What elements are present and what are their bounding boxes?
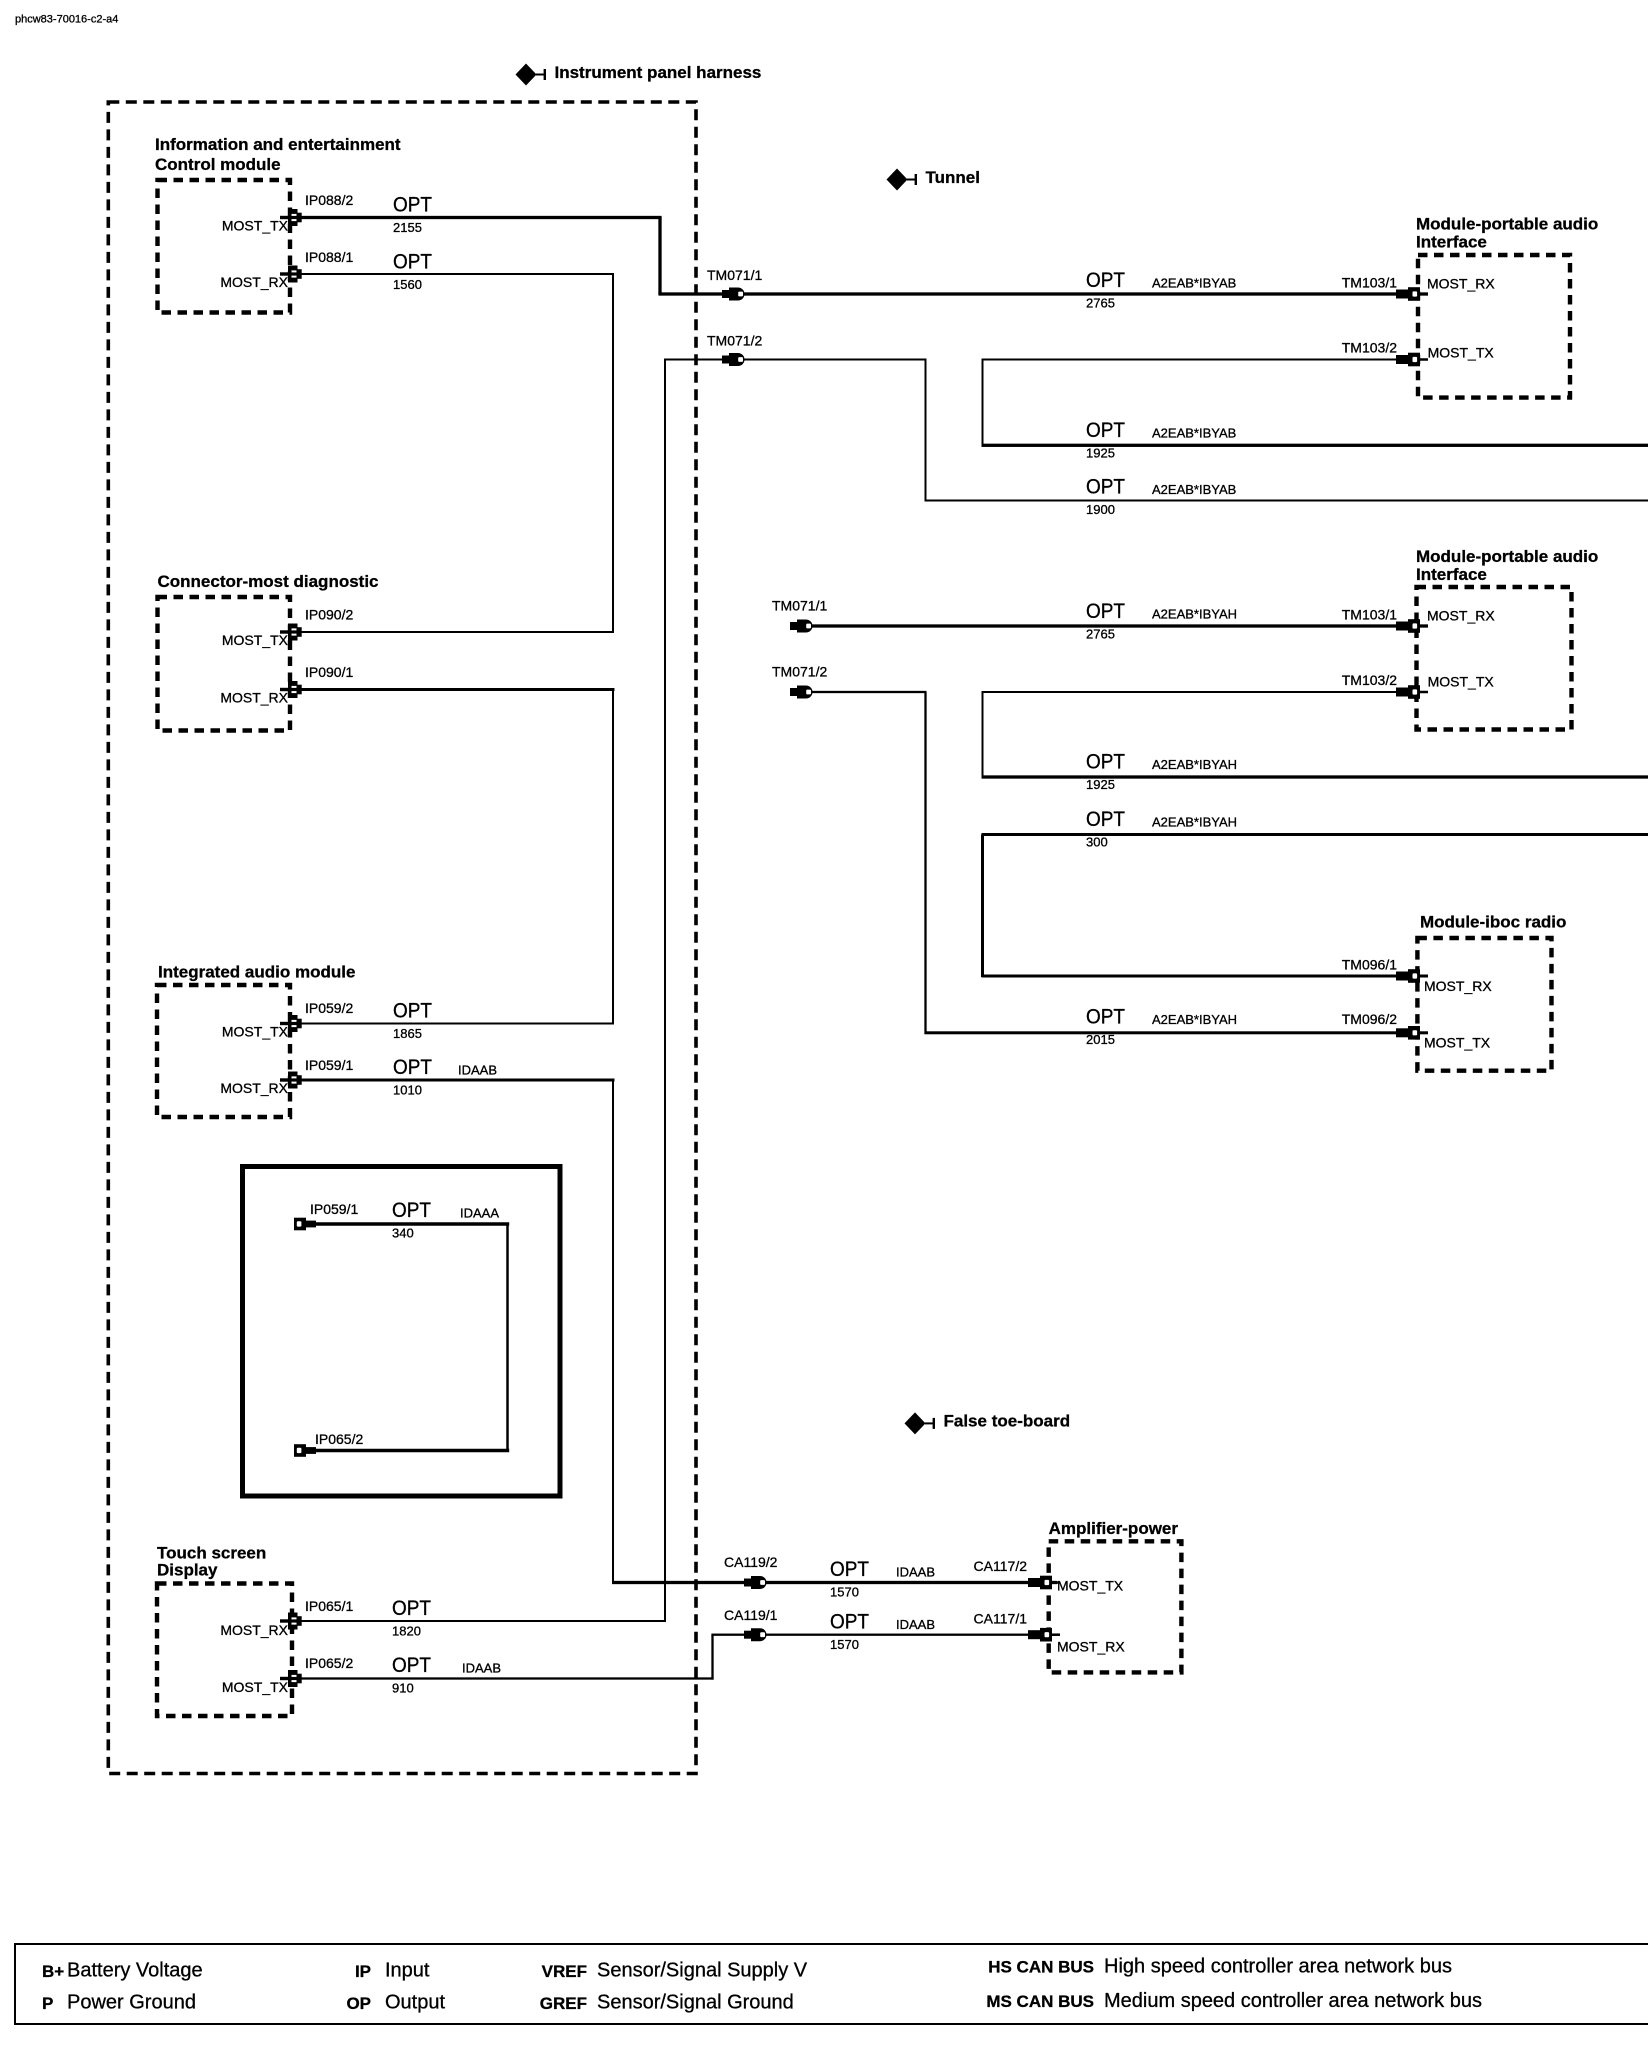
svg-text:MOST_TX: MOST_TX bbox=[1428, 344, 1495, 360]
svg-text:IP088/2: IP088/2 bbox=[305, 192, 353, 208]
wire through TM071/2 bbox=[664, 359, 927, 361]
wire OPT 910 from IP065/2 bbox=[302, 1677, 714, 1679]
svg-text:IP090/2: IP090/2 bbox=[305, 606, 353, 622]
wire vertical IP065/2 to CA119/1 bbox=[711, 1635, 713, 1680]
svg-text:Input: Input bbox=[385, 1960, 430, 1982]
wire OPT 300 off-page bbox=[982, 833, 1648, 836]
svg-text:OPT: OPT bbox=[392, 1654, 431, 1677]
svg-text:CA117/2: CA117/2 bbox=[974, 1558, 1028, 1574]
pin IP059/1 loop stub bbox=[294, 1218, 316, 1231]
svg-text:OPT: OPT bbox=[1086, 475, 1125, 498]
module Module-portable audio Interface (lower) bbox=[1417, 587, 1572, 730]
connector TM071/2 (upper) bbox=[722, 353, 745, 366]
svg-text:Power Ground: Power Ground bbox=[67, 1992, 196, 2014]
Instrument panel harness boundary box bbox=[108, 102, 696, 1774]
wire vertical to OPT 1925 bbox=[982, 360, 984, 447]
svg-text:2155: 2155 bbox=[393, 220, 422, 235]
svg-text:MOST_TX: MOST_TX bbox=[1428, 673, 1495, 689]
svg-text:Module-portable audio: Module-portable audio bbox=[1416, 547, 1598, 566]
svg-text:CA117/1: CA117/1 bbox=[974, 1610, 1028, 1626]
wire OPT 1925 lower off-page bbox=[982, 775, 1648, 778]
wire vertical to OPT 1925 lower bbox=[982, 692, 984, 778]
svg-text:P: P bbox=[42, 1994, 53, 2013]
wire to TM103/2 bbox=[982, 359, 1429, 361]
wire to TM103/2 lower bbox=[982, 691, 1429, 693]
svg-text:OP: OP bbox=[346, 1994, 371, 2013]
wire OPT 1570 through CA119/2 to CA117/2 bbox=[612, 1581, 1057, 1584]
svg-text:OPT: OPT bbox=[393, 193, 432, 216]
svg-text:Interface: Interface bbox=[1416, 232, 1487, 251]
svg-text:OPT: OPT bbox=[830, 1610, 869, 1633]
svg-text:Interface: Interface bbox=[1416, 565, 1487, 584]
svg-text:IDAAB: IDAAB bbox=[458, 1063, 497, 1078]
svg-text:TM071/1: TM071/1 bbox=[772, 597, 827, 613]
svg-text:A2EAB*IBYAH: A2EAB*IBYAH bbox=[1152, 757, 1237, 772]
svg-text:MOST_TX: MOST_TX bbox=[222, 1679, 289, 1695]
pin TM096/2 MOST_TX bbox=[1396, 1026, 1428, 1040]
svg-text:TM071/2: TM071/2 bbox=[707, 332, 762, 348]
svg-text:High speed controller area net: High speed controller area network bus bbox=[1104, 1956, 1452, 1978]
svg-text:MOST_TX: MOST_TX bbox=[1424, 1034, 1491, 1050]
wire OPT 340 loop from IP059/1 bbox=[314, 1222, 509, 1226]
wire from IP090/1 bbox=[302, 688, 615, 691]
svg-text:A2EAB*IBYAH: A2EAB*IBYAH bbox=[1152, 607, 1237, 622]
wire vertical TM071/2 to TM096/2 bbox=[924, 692, 926, 1034]
svg-text:Tunnel: Tunnel bbox=[926, 168, 980, 187]
harness marker Instrument panel harness bbox=[516, 64, 547, 86]
connector TM071/2 (lower) bbox=[790, 686, 813, 699]
wire OPT 1010 from IP059/1 bbox=[302, 1079, 615, 1082]
module Module-portable audio Interface (upper) bbox=[1418, 255, 1570, 398]
wire OPT 2155 from IP088/2 bbox=[302, 216, 662, 219]
wire OPT 2765 through TM071/1 to TM103/1 bbox=[658, 292, 1428, 295]
svg-text:IP090/1: IP090/1 bbox=[305, 664, 353, 680]
svg-text:CA119/2: CA119/2 bbox=[724, 1554, 778, 1570]
svg-text:IP059/2: IP059/2 bbox=[305, 1000, 353, 1016]
pin IP090/2 MOST_TX bbox=[280, 624, 302, 641]
svg-text:Output: Output bbox=[385, 1992, 445, 2014]
module Amplifier-power bbox=[1049, 1541, 1182, 1672]
svg-text:CA119/1: CA119/1 bbox=[724, 1607, 778, 1623]
svg-text:MOST_TX: MOST_TX bbox=[222, 632, 289, 648]
pin TM103/2 MOST_TX (upper) bbox=[1396, 353, 1428, 367]
pin IP090/1 MOST_RX bbox=[280, 681, 302, 698]
svg-text:1010: 1010 bbox=[393, 1083, 422, 1098]
wire OPT 2015 to TM096/2 bbox=[925, 1031, 1429, 1034]
svg-text:2765: 2765 bbox=[1086, 627, 1115, 642]
svg-text:Integrated audio module: Integrated audio module bbox=[158, 962, 355, 981]
wire OPT 1900 off-page bbox=[925, 500, 1648, 502]
svg-text:1865: 1865 bbox=[393, 1026, 422, 1041]
svg-text:MOST_TX: MOST_TX bbox=[222, 1023, 289, 1039]
svg-text:OPT: OPT bbox=[1086, 419, 1125, 442]
svg-text:IP: IP bbox=[355, 1962, 371, 1981]
wire OPT 1925 off-page bbox=[982, 444, 1648, 447]
connector TM071/1 (lower) bbox=[790, 620, 813, 633]
module Module-iboc radio bbox=[1417, 938, 1551, 1071]
wire OPT 1570 through CA119/1 to CA117/1 bbox=[711, 1634, 1057, 1636]
svg-text:IP065/1: IP065/1 bbox=[305, 1598, 353, 1614]
svg-text:phcw83-70016-c2-a4: phcw83-70016-c2-a4 bbox=[15, 14, 118, 26]
svg-text:IP065/2: IP065/2 bbox=[305, 1655, 353, 1671]
wire vertical IP059/1 to CA119/2 bbox=[612, 1080, 614, 1584]
svg-text:OPT: OPT bbox=[1086, 1005, 1125, 1028]
svg-text:False toe-board: False toe-board bbox=[944, 1412, 1071, 1431]
svg-text:Sensor/Signal Supply V: Sensor/Signal Supply V bbox=[597, 1960, 808, 1982]
module Touch screen Display bbox=[157, 1584, 292, 1717]
pin TM096/1 MOST_RX bbox=[1396, 969, 1428, 983]
svg-text:Amplifier-power: Amplifier-power bbox=[1049, 1519, 1179, 1538]
svg-text:MS CAN BUS: MS CAN BUS bbox=[986, 1992, 1094, 2011]
svg-text:OPT: OPT bbox=[1086, 808, 1125, 831]
svg-text:VREF: VREF bbox=[542, 1962, 587, 1981]
wire to TM096/1 bbox=[982, 975, 1429, 978]
svg-text:1560: 1560 bbox=[393, 277, 422, 292]
svg-text:Module-iboc radio: Module-iboc radio bbox=[1420, 912, 1566, 931]
wire OPT 1865 from IP059/2 bbox=[302, 1023, 615, 1025]
svg-text:OPT: OPT bbox=[393, 1056, 432, 1079]
svg-text:910: 910 bbox=[392, 1681, 414, 1696]
pin IP059/1 MOST_RX bbox=[280, 1072, 302, 1089]
svg-text:MOST_TX: MOST_TX bbox=[1057, 1577, 1124, 1593]
svg-text:340: 340 bbox=[392, 1226, 414, 1241]
pin TM103/1 MOST_RX (lower) bbox=[1396, 619, 1428, 633]
svg-text:MOST_RX: MOST_RX bbox=[220, 1622, 288, 1638]
svg-text:A2EAB*IBYAH: A2EAB*IBYAH bbox=[1152, 815, 1237, 830]
svg-text:OPT: OPT bbox=[830, 1558, 869, 1581]
svg-text:OPT: OPT bbox=[393, 999, 432, 1022]
wire vertical IP088/1 to IP090/2 bbox=[612, 274, 614, 632]
svg-text:Information and entertainment: Information and entertainment bbox=[155, 135, 401, 154]
wire loop vertical bbox=[506, 1223, 509, 1452]
svg-text:TM103/1: TM103/1 bbox=[1342, 274, 1397, 290]
svg-text:IDAAA: IDAAA bbox=[460, 1206, 499, 1221]
svg-text:Instrument panel harness: Instrument panel harness bbox=[555, 63, 762, 82]
module Connector-most diagnostic bbox=[158, 597, 291, 731]
svg-text:HS CAN BUS: HS CAN BUS bbox=[988, 1957, 1094, 1976]
svg-text:TM071/2: TM071/2 bbox=[772, 663, 827, 679]
svg-text:300: 300 bbox=[1086, 835, 1108, 850]
svg-text:Module-portable audio: Module-portable audio bbox=[1416, 214, 1598, 233]
connector CA119/2 bbox=[744, 1576, 767, 1589]
pin IP059/2 MOST_TX bbox=[280, 1015, 302, 1032]
connector TM071/1 (upper) bbox=[722, 288, 745, 301]
svg-text:MOST_RX: MOST_RX bbox=[220, 1080, 288, 1096]
module Information and entertainment Control module bbox=[158, 180, 291, 313]
svg-text:OPT: OPT bbox=[392, 1199, 431, 1222]
wire corner down to TM071/1 level bbox=[658, 218, 661, 295]
optical loop junction box bbox=[243, 1167, 561, 1497]
svg-text:A2EAB*IBYAB: A2EAB*IBYAB bbox=[1152, 276, 1236, 291]
wire from IP090/2 bbox=[302, 631, 615, 633]
wire vertical IP090/1 to IP059/2 bbox=[612, 690, 614, 1024]
svg-text:OPT: OPT bbox=[1086, 750, 1125, 773]
svg-text:Connector-most diagnostic: Connector-most diagnostic bbox=[158, 572, 379, 591]
svg-text:OPT: OPT bbox=[393, 250, 432, 273]
svg-text:IP059/1: IP059/1 bbox=[310, 1201, 358, 1217]
svg-text:1900: 1900 bbox=[1086, 502, 1115, 517]
svg-text:Medium speed controller area n: Medium speed controller area network bus bbox=[1104, 1990, 1482, 2012]
svg-text:1570: 1570 bbox=[830, 1637, 859, 1652]
pin CA117/1 MOST_RX bbox=[1028, 1628, 1060, 1642]
svg-text:2765: 2765 bbox=[1086, 296, 1115, 311]
svg-text:MOST_RX: MOST_RX bbox=[1424, 978, 1492, 994]
wire OPT 2765 lower from TM071/1 to TM103/1 bbox=[790, 624, 1428, 627]
svg-text:Battery Voltage: Battery Voltage bbox=[67, 1960, 203, 1982]
svg-text:MOST_RX: MOST_RX bbox=[1057, 1638, 1125, 1654]
wire through TM071/2 lower bbox=[790, 691, 927, 693]
wire loop to IP065/2 bbox=[314, 1449, 509, 1453]
svg-text:1925: 1925 bbox=[1086, 777, 1115, 792]
svg-text:IDAAB: IDAAB bbox=[462, 1661, 501, 1676]
svg-text:Display: Display bbox=[157, 1560, 218, 1579]
svg-text:MOST_RX: MOST_RX bbox=[220, 274, 288, 290]
svg-text:OPT: OPT bbox=[1086, 600, 1125, 623]
harness marker False toe-board bbox=[905, 1412, 936, 1434]
pin IP065/1 MOST_RX bbox=[280, 1613, 302, 1630]
svg-text:Control module: Control module bbox=[155, 155, 281, 174]
svg-text:TM096/1: TM096/1 bbox=[1342, 956, 1397, 972]
svg-text:IP065/2: IP065/2 bbox=[315, 1431, 363, 1447]
svg-text:MOST_RX: MOST_RX bbox=[1427, 276, 1495, 292]
svg-text:A2EAB*IBYAB: A2EAB*IBYAB bbox=[1152, 482, 1236, 497]
pin IP088/2 MOST_TX bbox=[280, 209, 302, 226]
svg-text:2015: 2015 bbox=[1086, 1032, 1115, 1047]
legend box bbox=[15, 1944, 1648, 2024]
svg-text:A2EAB*IBYAB: A2EAB*IBYAB bbox=[1152, 426, 1236, 441]
wire OPT 1820 from IP065/1 bbox=[302, 1620, 667, 1622]
svg-text:TM096/2: TM096/2 bbox=[1342, 1011, 1397, 1027]
svg-text:1820: 1820 bbox=[392, 1624, 421, 1639]
pin TM103/2 MOST_TX (lower) bbox=[1396, 685, 1428, 699]
svg-text:TM103/2: TM103/2 bbox=[1342, 672, 1397, 688]
wire vertical to OPT 1900 bbox=[925, 360, 927, 501]
svg-text:OPT: OPT bbox=[1086, 269, 1125, 292]
pin TM103/1 MOST_RX (upper) bbox=[1396, 287, 1428, 301]
svg-text:IP059/1: IP059/1 bbox=[305, 1057, 353, 1073]
wire vertical OPT 300 to TM096/1 bbox=[981, 835, 984, 978]
svg-text:MOST_RX: MOST_RX bbox=[1427, 607, 1495, 623]
connector CA119/1 bbox=[744, 1628, 767, 1641]
svg-text:1570: 1570 bbox=[830, 1585, 859, 1600]
svg-text:1925: 1925 bbox=[1086, 446, 1115, 461]
svg-text:MOST_TX: MOST_TX bbox=[222, 217, 289, 233]
pin IP065/2 MOST_TX bbox=[280, 1670, 302, 1687]
pin IP065/2 loop stub bbox=[294, 1444, 316, 1457]
svg-text:IDAAB: IDAAB bbox=[896, 1565, 935, 1580]
svg-text:Sensor/Signal Ground: Sensor/Signal Ground bbox=[597, 1992, 794, 2014]
svg-text:GREF: GREF bbox=[540, 1994, 587, 2013]
svg-text:MOST_RX: MOST_RX bbox=[220, 689, 288, 705]
wire OPT 1560 from IP088/1 bbox=[302, 273, 615, 275]
svg-text:OPT: OPT bbox=[392, 1597, 431, 1620]
module Integrated audio module bbox=[157, 985, 290, 1117]
svg-text:B+: B+ bbox=[42, 1962, 64, 1981]
svg-text:TM103/2: TM103/2 bbox=[1342, 339, 1397, 355]
svg-text:TM103/1: TM103/1 bbox=[1342, 606, 1397, 622]
harness marker Tunnel bbox=[887, 169, 918, 191]
pin IP088/1 MOST_RX bbox=[280, 266, 302, 283]
svg-text:IP088/1: IP088/1 bbox=[305, 249, 353, 265]
svg-text:A2EAB*IBYAH: A2EAB*IBYAH bbox=[1152, 1012, 1237, 1027]
pin CA117/2 MOST_TX bbox=[1028, 1576, 1060, 1590]
svg-text:IDAAB: IDAAB bbox=[896, 1617, 935, 1632]
svg-text:TM071/1: TM071/1 bbox=[707, 267, 762, 283]
wire vertical TM071/2 to IP065/1 bbox=[664, 360, 666, 1623]
